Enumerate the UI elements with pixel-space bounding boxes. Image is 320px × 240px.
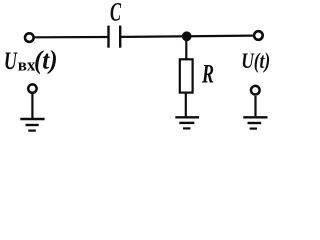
svg-text:U(t): U(t): [241, 48, 270, 73]
svg-text:R: R: [201, 60, 214, 89]
svg-text:U: U: [4, 48, 18, 75]
svg-text:C: C: [110, 0, 121, 26]
svg-text:(t): (t): [34, 45, 58, 74]
